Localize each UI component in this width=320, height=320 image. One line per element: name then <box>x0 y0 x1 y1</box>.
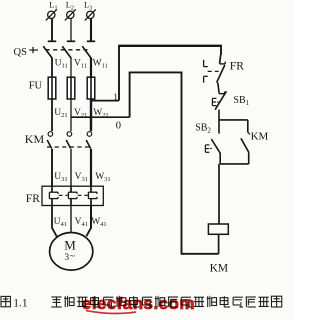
svg-text:U11: U11 <box>55 58 68 69</box>
svg-text:L3: L3 <box>84 0 92 12</box>
svg-text:KM: KM <box>210 262 229 274</box>
svg-text:QS: QS <box>14 47 28 58</box>
svg-text:L2: L2 <box>66 0 74 12</box>
svg-text:U21: U21 <box>54 108 67 119</box>
svg-text:W11: W11 <box>93 58 108 69</box>
svg-text:SB2: SB2 <box>195 122 211 134</box>
svg-text:U41: U41 <box>54 217 67 228</box>
svg-text:FR: FR <box>230 60 244 72</box>
svg-text:W41: W41 <box>91 217 106 228</box>
svg-text:KM: KM <box>251 130 269 142</box>
svg-text:FR: FR <box>26 193 40 205</box>
svg-text:1: 1 <box>113 93 118 103</box>
svg-text:V41: V41 <box>75 217 88 228</box>
svg-text:W31: W31 <box>95 172 110 183</box>
svg-text:V11: V11 <box>74 58 87 69</box>
svg-text:KM: KM <box>25 132 45 146</box>
svg-text:U31: U31 <box>54 172 67 183</box>
svg-text:FU: FU <box>29 81 43 92</box>
svg-text:0: 0 <box>116 120 121 131</box>
svg-text:V31: V31 <box>75 172 88 183</box>
svg-text:SB1: SB1 <box>233 95 249 107</box>
svg-text:~: ~ <box>70 252 75 262</box>
svg-text:3: 3 <box>64 253 69 263</box>
svg-text:M: M <box>64 238 76 253</box>
svg-text:elecfans.com: elecfans.com <box>82 294 195 313</box>
svg-text:1.1: 1.1 <box>13 298 28 310</box>
